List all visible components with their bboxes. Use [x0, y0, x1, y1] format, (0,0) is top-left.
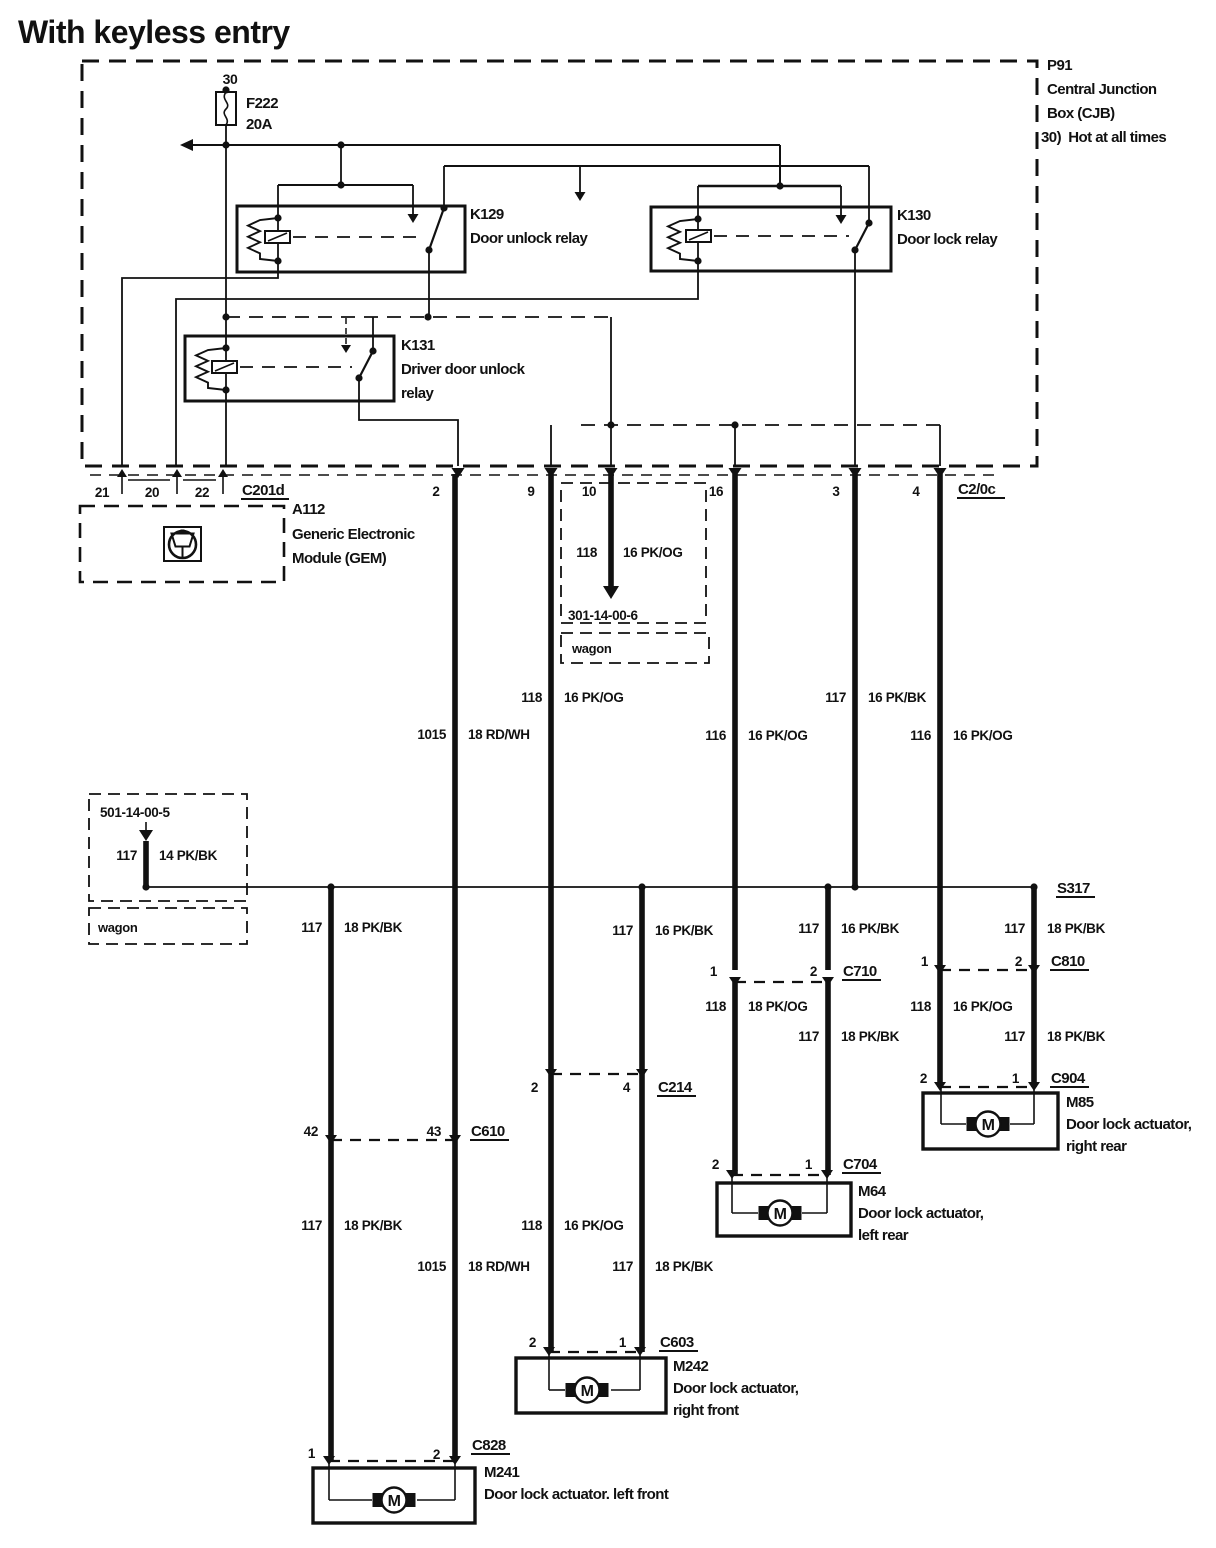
svg-text:2: 2 [432, 484, 439, 499]
svg-text:C710: C710 [843, 963, 877, 980]
K131 coil winding zigzag [196, 348, 226, 390]
svg-text:20: 20 [145, 485, 159, 500]
svg-text:1: 1 [308, 1446, 316, 1461]
svg-text:16: 16 [709, 484, 724, 499]
GEM pin numbers [95, 485, 209, 500]
wire: switch rail y166 [444, 165, 869, 167]
svg-text:4: 4 [912, 484, 920, 499]
svg-text:18 PK/OG: 18 PK/OG [748, 999, 807, 1014]
K129 switch common riser [443, 166, 445, 208]
connector C603 [529, 1335, 646, 1356]
svg-text:2: 2 [1015, 954, 1022, 969]
K130 armature dashed link [714, 235, 849, 237]
svg-text:right rear: right rear [1066, 1138, 1127, 1155]
svg-text:18 PK/BK: 18 PK/BK [1047, 1029, 1106, 1044]
svg-text:501-14-00-5: 501-14-00-5 [100, 805, 171, 820]
ref 501-14-00-5 dashed box [89, 794, 247, 901]
svg-text:2: 2 [810, 964, 817, 979]
wire: rail riser to K130 coil line [779, 145, 781, 186]
svg-text:30) Hot at all times: 30) Hot at all times [1041, 129, 1166, 146]
svg-text:wagon: wagon [571, 641, 612, 656]
connector C710 [710, 964, 834, 986]
K129 coil vertical + nodes [274, 185, 281, 265]
relay K129 box [237, 206, 465, 272]
K131 coil nodes [222, 344, 229, 393]
junction pin16 wire / y425 [731, 421, 738, 428]
svg-text:Door unlock relay: Door unlock relay [470, 230, 589, 247]
svg-text:2: 2 [920, 1071, 927, 1086]
junction K129 switch wire / K131 line [424, 313, 431, 320]
svg-text:Driver door unlock: Driver door unlock [401, 361, 526, 378]
dashed link line y425 [581, 424, 940, 426]
svg-text:43: 43 [427, 1124, 442, 1139]
fuse F222 [216, 92, 236, 125]
wire: K131 switch to pin 2 [359, 378, 458, 466]
GEM icon [164, 527, 201, 561]
svg-text:C610: C610 [471, 1123, 505, 1140]
svg-text:Door lock actuator,: Door lock actuator, [858, 1205, 984, 1222]
door lock actuator M242 right front [516, 1352, 666, 1413]
svg-text:K130: K130 [897, 207, 931, 224]
K129 coil top line y185 [278, 184, 413, 186]
wire: K131 line corner down to pin 10 [610, 317, 612, 466]
svg-text:20A: 20A [246, 116, 273, 133]
wire 118 16 PK/OG pin9 to C214 [548, 474, 554, 1074]
CJB pin 16 [709, 468, 742, 499]
svg-text:Module (GEM): Module (GEM) [292, 550, 387, 567]
svg-text:10: 10 [582, 484, 596, 499]
M64 labels [858, 1183, 984, 1244]
svg-text:117: 117 [1004, 1029, 1025, 1044]
K129 coil core box [265, 231, 290, 243]
svg-text:1: 1 [1012, 1071, 1020, 1086]
svg-text:2: 2 [433, 1447, 440, 1462]
ref 301-14-00-6 dashed box [561, 483, 706, 623]
wire 117 18 PK/BK S317 to C810 pin2 [1031, 887, 1037, 970]
svg-text:18 PK/BK: 18 PK/BK [344, 1218, 403, 1233]
K130 switch [851, 219, 872, 253]
splice bus S317 wire y887 [146, 886, 1034, 888]
connector C704 [712, 1157, 833, 1179]
svg-text:Box (CJB): Box (CJB) [1047, 105, 1115, 122]
svg-text:left rear: left rear [858, 1227, 909, 1244]
svg-text:118: 118 [576, 545, 598, 560]
K130 switch common riser [868, 166, 870, 223]
svg-text:117: 117 [798, 921, 819, 936]
svg-text:C810: C810 [1051, 953, 1085, 970]
svg-text:16 PK/OG: 16 PK/OG [623, 545, 682, 560]
svg-text:9: 9 [527, 484, 534, 499]
svg-text:C2/0c: C2/0c [958, 481, 995, 498]
svg-text:118: 118 [705, 999, 727, 1014]
svg-text:117: 117 [301, 920, 322, 935]
fuse F222 value labels [246, 95, 278, 133]
svg-text:M242: M242 [673, 1358, 709, 1375]
svg-text:Door lock actuator,: Door lock actuator, [673, 1380, 799, 1397]
svg-text:117: 117 [116, 848, 137, 863]
svg-text:2: 2 [712, 1157, 719, 1172]
svg-text:1: 1 [619, 1335, 627, 1350]
svg-text:M241: M241 [484, 1464, 520, 1481]
svg-text:30: 30 [223, 71, 238, 87]
svg-text:M: M [774, 1206, 787, 1223]
connector C810 [921, 954, 1040, 974]
wire 117 18 PK/BK C214 to C603 [639, 1074, 645, 1352]
svg-text:Door lock actuator,: Door lock actuator, [1066, 1116, 1192, 1133]
K129 switch [425, 204, 447, 253]
junction S317 drop x1034 [1030, 883, 1037, 890]
K130 coil core box [686, 230, 711, 242]
A112 GEM labels [292, 501, 415, 567]
K129 coil winding zigzag [248, 218, 278, 261]
M242 labels [673, 1358, 799, 1419]
door lock actuator M64 left rear [717, 1175, 851, 1236]
CJB pin 3 [832, 468, 861, 499]
arrow stub to other circuits [575, 166, 586, 201]
connector C610 [304, 1124, 461, 1144]
connector face dashed line under CJB [90, 474, 1002, 476]
svg-text:14 PK/BK: 14 PK/BK [159, 848, 218, 863]
junction K130 coil line [776, 182, 783, 189]
svg-text:18 PK/BK: 18 PK/BK [841, 1029, 900, 1044]
wire 1015 18 RD/WH pin2 to C610 [452, 474, 458, 1140]
svg-text:16 PK/BK: 16 PK/BK [868, 690, 927, 705]
wire 117 18 PK/BK C810 to C904 [1031, 970, 1037, 1087]
K129 armature dashed link [293, 236, 424, 238]
P91 Central Junction Box dashed outline [82, 61, 1037, 466]
svg-text:16 PK/BK: 16 PK/BK [655, 923, 714, 938]
M85 labels [1066, 1094, 1192, 1155]
svg-text:M64: M64 [858, 1183, 887, 1200]
wire: K130 switch down to pin 3 [854, 250, 856, 466]
svg-text:116: 116 [705, 728, 727, 743]
CJB pin 4 [912, 468, 946, 499]
svg-text:1: 1 [921, 954, 929, 969]
K131 coil core box [212, 361, 237, 373]
relay K131 box [185, 336, 394, 401]
svg-text:21: 21 [95, 485, 110, 500]
K131 feed dashed line y317 [226, 316, 611, 318]
svg-text:C214: C214 [658, 1079, 693, 1096]
wire: K129 coil return to pin 21 [122, 261, 278, 466]
K129 arrowed pin to NO contact [408, 185, 419, 223]
wire: hot-at-all-times rail y145 with left arrow [180, 139, 780, 151]
svg-text:C201d: C201d [242, 482, 285, 499]
K131 armature dashed link [240, 366, 352, 368]
K129 labels [470, 206, 589, 247]
wire 117 18 PK/BK C710 to C704 [825, 982, 831, 1175]
CJB pin 2 [432, 468, 464, 499]
svg-text:relay: relay [401, 385, 434, 402]
M242 motor symbol [566, 1383, 576, 1397]
svg-text:301-14-00-6: 301-14-00-6 [568, 608, 639, 623]
K131 labels [401, 337, 526, 402]
svg-text:A112: A112 [292, 501, 325, 518]
svg-text:117: 117 [301, 1218, 322, 1233]
svg-text:Generic Electronic: Generic Electronic [292, 526, 415, 543]
svg-text:118: 118 [910, 999, 932, 1014]
node 30 junction dot [222, 86, 229, 93]
junction pin10 wire / y425 [607, 421, 614, 428]
connector C214 [531, 1069, 648, 1095]
svg-text:S317: S317 [1057, 880, 1090, 897]
wagon dashed box pin10 [561, 633, 709, 663]
wire: fuse to K131 coil vertical x226 [225, 125, 227, 466]
svg-text:1015: 1015 [417, 727, 446, 742]
wire 117 18 PK/BK C610 to C828 [328, 1140, 334, 1461]
junction drop x828 [824, 883, 831, 890]
M64 motor symbol [759, 1206, 769, 1220]
svg-text:22: 22 [195, 485, 209, 500]
wire 118 18 PK/OG C710 to C704 [732, 982, 738, 1175]
svg-text:18 PK/BK: 18 PK/BK [344, 920, 403, 935]
wagon dashed box 501 [89, 908, 247, 944]
svg-text:M85: M85 [1066, 1094, 1094, 1111]
K129 riser rail to coil line [340, 145, 342, 185]
svg-text:16 PK/OG: 16 PK/OG [953, 728, 1012, 743]
svg-text:wagon: wagon [97, 920, 138, 935]
svg-text:16 PK/BK: 16 PK/BK [841, 921, 900, 936]
svg-text:C904: C904 [1051, 1070, 1086, 1087]
connector C904 [920, 1071, 1040, 1091]
svg-text:2: 2 [531, 1080, 538, 1095]
wire 118 16 PK/OG pin10 stub [603, 474, 619, 599]
wire 117 16 PK/BK bus to C710 pin2 [825, 887, 831, 970]
svg-text:2: 2 [529, 1335, 536, 1350]
svg-text:K129: K129 [470, 206, 504, 223]
K131 arrowed pin [341, 318, 351, 353]
junction drop x331 [327, 883, 334, 890]
svg-text:P91: P91 [1047, 57, 1072, 74]
door lock actuator M85 right rear [923, 1087, 1058, 1149]
svg-text:F222: F222 [246, 95, 278, 112]
wire 1015 18 RD/WH C610 to C828 [452, 1140, 458, 1461]
svg-text:3: 3 [832, 484, 840, 499]
wire: K129 switch to K131 line [428, 250, 430, 317]
CJB pin 10 [582, 468, 618, 499]
M241 motor symbol [373, 1493, 383, 1507]
svg-text:Door lock actuator. left front: Door lock actuator. left front [484, 1486, 669, 1503]
svg-text:118: 118 [521, 1218, 543, 1233]
P91 CJB labels [1041, 57, 1166, 146]
svg-text:16 PK/OG: 16 PK/OG [748, 728, 807, 743]
svg-text:With keyless entry: With keyless entry [18, 14, 290, 50]
svg-text:C828: C828 [472, 1437, 506, 1454]
K130 coil vertical + nodes [694, 186, 701, 265]
svg-text:K131: K131 [401, 337, 435, 354]
svg-text:M: M [581, 1383, 594, 1400]
junction fuse line / K131 line [222, 313, 229, 320]
arrow from 501-14-00-6 into wire [139, 822, 153, 887]
svg-text:117: 117 [1004, 921, 1025, 936]
svg-text:Door lock relay: Door lock relay [897, 231, 998, 248]
wire 117 16 PK/BK bus to C214 pin4 [639, 887, 645, 1074]
K130 arrowed pin to NO contact [836, 186, 847, 224]
wire 118 16 PK/OG C214 to C603 [548, 1074, 554, 1352]
GEM pins 21 20 22 arrows [117, 469, 228, 494]
svg-text:18 RD/WH: 18 RD/WH [468, 1259, 530, 1274]
wire 118 16 PK/OG C810 to C904 [937, 970, 943, 1087]
svg-text:M: M [388, 1493, 401, 1510]
svg-text:117: 117 [612, 923, 633, 938]
K130 labels [897, 207, 998, 248]
svg-text:C603: C603 [660, 1334, 694, 1351]
svg-text:118: 118 [521, 690, 543, 705]
M85 motor symbol [967, 1117, 977, 1131]
K130 coil winding zigzag [668, 219, 698, 261]
GEM A112 dashed box [80, 506, 284, 582]
svg-text:right front: right front [673, 1402, 739, 1419]
door lock actuator M241 left front [313, 1461, 475, 1523]
wire: K130 coil return to pin 20 [176, 261, 698, 466]
junction K129 riser/rail [337, 141, 344, 148]
svg-text:18 RD/WH: 18 RD/WH [468, 727, 530, 742]
junction 501 wire [142, 883, 149, 890]
svg-text:C704: C704 [843, 1156, 878, 1173]
K131 switch [355, 347, 376, 381]
svg-text:117: 117 [612, 1259, 633, 1274]
connector C828 [308, 1446, 461, 1465]
wire 116 16 PK/OG pin16 to C710 [732, 474, 738, 970]
svg-text:42: 42 [304, 1124, 318, 1139]
svg-text:16 PK/OG: 16 PK/OG [564, 1218, 623, 1233]
wire 117 16 PK/BK pin3 to splice bus [852, 474, 858, 887]
junction drop x642 [638, 883, 645, 890]
wire: pin 9 stub [550, 425, 552, 466]
svg-text:16 PK/OG: 16 PK/OG [953, 999, 1012, 1014]
CJB pin 9 [527, 468, 557, 499]
svg-text:18 PK/BK: 18 PK/BK [1047, 921, 1106, 936]
relay K130 box [651, 207, 891, 271]
svg-text:117: 117 [798, 1029, 819, 1044]
svg-text:Central Junction: Central Junction [1047, 81, 1157, 98]
svg-text:1015: 1015 [417, 1259, 446, 1274]
svg-text:18 PK/BK: 18 PK/BK [655, 1259, 714, 1274]
svg-text:1: 1 [710, 964, 718, 979]
svg-text:116: 116 [910, 728, 932, 743]
junction fuse/rail [222, 141, 229, 148]
svg-text:16 PK/OG: 16 PK/OG [564, 690, 623, 705]
wire: pin 16 stub [734, 425, 736, 466]
wire: pin 4 stub [939, 425, 941, 466]
K131 switch contact riser [372, 317, 374, 351]
svg-text:1: 1 [805, 1157, 813, 1172]
wire 116 16 PK/OG pin4 to C810 [937, 474, 943, 970]
junction pin3 wire terminates [851, 883, 858, 890]
svg-text:M: M [982, 1117, 995, 1134]
K130 coil top line y186 [698, 185, 841, 188]
svg-text:117: 117 [825, 690, 846, 705]
M241 labels [484, 1464, 669, 1503]
wire 117 18 PK/BK bus to C610 pin42 [328, 887, 334, 1140]
svg-text:4: 4 [623, 1080, 631, 1095]
